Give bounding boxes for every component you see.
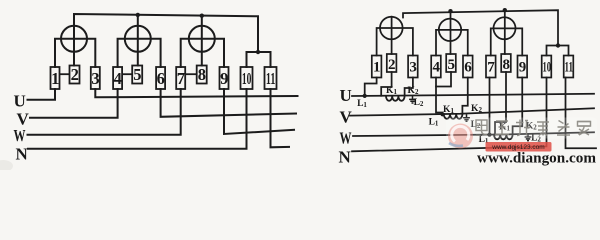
wire: U load from terminal 3 [95,89,297,97]
svg-text:6: 6 [157,69,165,88]
terminal 2r [387,54,397,72]
wire: neutral T-bar over terminals 10 and 11 [247,52,271,67]
wire: phase2 voltage coil vertical [137,15,139,66]
terminal 5 [132,66,142,84]
watermark logo circle [448,124,473,149]
junction: neutral T-bar (right) [556,43,560,47]
svg-text:L1: L1 [357,99,367,109]
terminal 9 [220,67,229,89]
terminal 5r [446,54,456,72]
wire: neutral T-bar over terminals 10,11 (right) [547,46,569,56]
phase labels (left) [14,92,30,164]
wire: W supply to terminal 7 [28,89,181,135]
svg-text:W: W [340,128,352,147]
terminal 11r [564,56,574,78]
terminal 10 [241,67,253,89]
svg-text:11: 11 [564,60,573,76]
svg-text:5: 5 [447,57,455,73]
svg-text:2: 2 [388,57,396,73]
CT1 secondary scallops [386,96,405,101]
svg-text:2: 2 [71,65,79,84]
wire: phase1 voltage coil vertical [73,26,75,66]
wire: top voltage bus (right) [403,10,558,45]
wire: K2 hook to terminal 6 [462,78,467,114]
terminal 6 [156,67,165,89]
junction: neutral T-bar drop [256,50,260,54]
terminal numbers (right) [373,57,573,76]
svg-text:1: 1 [373,60,381,76]
wire: terminal 1 tap to U line [365,78,377,96]
terminal 8 [197,66,207,84]
svg-text:7: 7 [177,69,185,88]
bottom-left gray smudge [0,160,13,172]
svg-text:5: 5 [133,65,141,84]
wire: V load from terminal 6 [161,89,296,117]
terminal 6r [463,56,473,78]
current coil B [439,19,461,41]
svg-text:K1: K1 [443,105,454,115]
voltage link 7-8 [185,73,197,75]
terminal 2 [70,66,80,84]
svg-text:K2: K2 [471,104,482,114]
current coil A (circle with cross) [380,17,403,40]
svg-text:K2: K2 [408,86,419,96]
svg-text:9: 9 [220,69,228,88]
current coil C [494,17,516,39]
svg-text:1: 1 [51,69,59,88]
terminal 4r [431,56,441,78]
svg-text:7: 7 [487,60,495,76]
CT labels [357,86,541,145]
svg-text:4: 4 [432,60,440,76]
svg-text:U: U [340,86,352,105]
svg-text:W: W [14,126,26,145]
watermark hanzi (stylized) [476,120,591,136]
svg-text:8: 8 [198,65,206,84]
svg-text:3: 3 [409,60,417,76]
terminal 11 [265,67,277,89]
wire: W phase line [353,132,594,136]
junction: top bus / coil C [503,8,507,12]
wire: phase3 voltage coil vertical [201,16,203,66]
wire: N load from terminal 11 [566,78,597,149]
terminal boxes 1-11 (right) [372,54,574,78]
svg-text:10: 10 [242,69,252,88]
wire: terminal 4 tap down to V line [436,78,443,115]
svg-text:6: 6 [464,60,472,76]
svg-text:10: 10 [542,60,551,76]
junction: top bus / coil M3 [200,14,204,18]
wire: top voltage bus [74,14,258,52]
watermark logo blue swoosh [449,143,463,146]
svg-text:3: 3 [91,69,99,88]
wire: V supply to terminal 4 [30,89,118,118]
junction: W line tap L1 [487,133,491,137]
wire: U phase line [352,94,594,96]
svg-text:N: N [339,148,352,167]
wire: terminal 7 tap to W line [489,78,491,136]
ground symbol CT1 [409,96,416,103]
wire: K2 hook to terminal 3 [405,78,413,96]
CT2 secondary scallops [444,114,463,119]
CT3 secondary scallops [494,135,513,140]
voltage link 1-2 [60,73,70,75]
ground symbol CT3 [525,134,532,141]
wire: N line to terminal 10 [352,78,547,152]
terminal numbers (left) [51,65,275,88]
svg-text:L1: L1 [429,117,439,127]
svg-text:www.diangon.com: www.diangon.com [477,151,596,167]
wire: W load from terminal 9 [224,89,294,134]
ground symbol CT2 [463,114,470,121]
svg-text:9: 9 [519,60,527,76]
svg-text:L2: L2 [414,98,424,108]
svg-text:8: 8 [502,57,510,73]
wire: U supply to terminal 1 [28,89,56,100]
terminal 9r [518,56,528,78]
current coil M1 (circle with cross) [61,26,87,52]
terminal 1r [372,56,382,78]
wire: terminal 8 voltage tap to W line [495,72,506,135]
terminal 8r [501,54,511,72]
current coil M3 [189,26,215,52]
wire: terminal 2 voltage tap to U line [381,72,391,96]
phase labels (right) [339,86,353,167]
svg-text:N: N [16,145,29,164]
junction: top bus / coil M2 [136,13,140,17]
terminal 7r [486,56,496,78]
wire: K2 hook to terminal 9 [513,78,523,135]
svg-text:11: 11 [266,69,276,88]
junction: top bus / coil B [448,9,452,13]
red url band [486,142,552,152]
wire: N load from terminal 11 [271,89,290,147]
terminal boxes 1-11 (left) [51,66,277,90]
svg-text:U: U [14,92,26,111]
terminal 3r [408,56,418,78]
terminal 1 [51,67,60,89]
svg-text:V: V [340,108,353,127]
svg-text:4: 4 [114,69,122,88]
terminal 7 [176,67,185,89]
junction: V line tap L1 [440,112,444,116]
wire: V phase line [350,108,594,115]
phase lines (right) [350,72,596,151]
current coil M2 [125,26,151,52]
scan background [0,0,600,170]
wire: terminal 5 tap joins terminal 4 wire [436,72,451,87]
terminal 10r [542,56,552,78]
junction: U line tap L1 [363,94,367,98]
voltage link 4-5 [122,73,132,75]
terminal 3 [91,67,100,89]
wire: N supply to terminal 10 [28,89,247,149]
translucent watermark band [446,118,597,139]
svg-text:K1: K1 [386,86,397,96]
terminal 4 [113,67,122,89]
supply and load wires (left) [28,89,298,149]
